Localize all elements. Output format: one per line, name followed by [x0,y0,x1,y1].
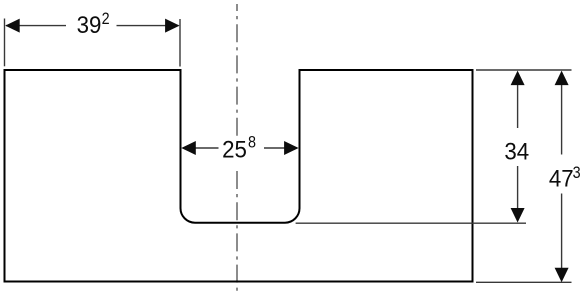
svg-text:39: 39 [77,12,102,39]
svg-text:25: 25 [222,136,247,163]
svg-text:47: 47 [549,166,574,193]
svg-text:2: 2 [102,10,110,28]
svg-text:3: 3 [573,164,581,182]
svg-text:34: 34 [504,139,529,166]
svg-text:8: 8 [248,134,256,152]
